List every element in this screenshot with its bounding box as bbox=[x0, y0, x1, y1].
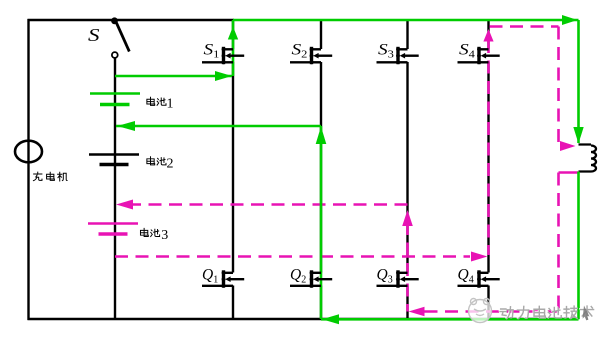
battery B1 plates (green) bbox=[90, 94, 140, 105]
switch S pole circle bbox=[112, 52, 118, 58]
wire green battery1 bottom branch bbox=[116, 125, 321, 128]
wire magenta battery3 bottom branch bbox=[115, 255, 470, 258]
svg-text:2: 2 bbox=[167, 156, 174, 171]
svg-text:Q1: Q1 bbox=[202, 267, 218, 286]
rail S2/Q2 column bbox=[320, 19, 322, 319]
arrow green left into battery node1 bbox=[117, 121, 135, 131]
watermark text bbox=[499, 305, 593, 318]
wire green right side drop bbox=[577, 20, 580, 143]
rail S1/Q1 column bbox=[232, 19, 234, 319]
wire battery stack bbox=[114, 58, 116, 319]
wire green bottom bus bbox=[321, 318, 579, 321]
arrow green up rail1 bbox=[228, 27, 238, 40]
svg-text:Q2: Q2 bbox=[290, 267, 306, 286]
wire magenta battery3 top branch bbox=[128, 203, 408, 206]
wire green rail2 lower bbox=[320, 126, 323, 319]
svg-text:Q4: Q4 bbox=[458, 267, 474, 286]
label 充电机 (charger) bbox=[33, 172, 67, 181]
battery B2 plates bbox=[89, 155, 139, 165]
svg-text:S4: S4 bbox=[459, 40, 475, 60]
wire magenta coil bottom link (solid) bbox=[559, 171, 580, 174]
arrow green down into inductor bbox=[573, 127, 583, 144]
MOSFET Q1 bbox=[202, 270, 244, 287]
MOSFET Q2 bbox=[290, 270, 332, 287]
arrow magenta right into inductor top bbox=[560, 141, 576, 151]
svg-text:S2: S2 bbox=[292, 40, 308, 60]
MOSFET S3 bbox=[377, 47, 419, 64]
watermark logo bbox=[469, 299, 492, 323]
arrow green left bottom bus bbox=[322, 314, 339, 324]
wire magenta bottom return bbox=[425, 310, 560, 313]
MOSFET Q3 bbox=[377, 270, 419, 287]
MOSFET S2 bbox=[290, 47, 332, 64]
green arrows bbox=[117, 15, 584, 324]
svg-text:S: S bbox=[88, 26, 100, 45]
MOSFET S1 bbox=[202, 47, 244, 64]
rail S4/Q4 column bbox=[487, 19, 489, 319]
wire green inductor to bottom bus bbox=[577, 172, 580, 320]
switch S blade bbox=[116, 23, 129, 52]
wire top bus (black part) bbox=[28, 19, 235, 21]
arrow green right top bus end bbox=[562, 15, 578, 25]
wire green top bus bbox=[233, 19, 579, 22]
battery B3 plates (magenta) bbox=[88, 224, 138, 235]
MOSFET S4 bbox=[458, 47, 500, 64]
arrow magenta up rail4 top bbox=[483, 29, 493, 42]
wire magenta top jog bbox=[490, 27, 559, 144]
watermark cursor bbox=[583, 306, 590, 321]
svg-text:S3: S3 bbox=[378, 40, 394, 60]
wire left border bbox=[27, 19, 29, 320]
arrow green right into rail1 bbox=[215, 71, 232, 81]
svg-text:S1: S1 bbox=[204, 40, 220, 60]
svg-text:Q3: Q3 bbox=[377, 267, 393, 286]
wire green rail1 top bbox=[232, 20, 235, 76]
arrow magenta up rail3 bbox=[402, 210, 413, 226]
label 电池2 bbox=[147, 157, 166, 165]
inductor L bbox=[579, 145, 597, 172]
wire magenta over rail3 bbox=[406, 222, 409, 312]
switch S dot bbox=[111, 17, 118, 24]
wire magenta right drop bbox=[557, 173, 560, 312]
label 电池3 bbox=[140, 228, 159, 236]
label 电池1 bbox=[147, 97, 166, 105]
rail S3/Q3 column bbox=[406, 19, 408, 319]
wire green battery1 top branch bbox=[115, 75, 232, 78]
arrow magenta left bottom return bbox=[409, 307, 425, 317]
arrow magenta left into battery3+ bbox=[116, 200, 133, 210]
arrow green up rail2 bbox=[316, 127, 327, 145]
magenta arrows bbox=[116, 29, 576, 316]
wire bottom bus bbox=[28, 318, 579, 320]
svg-text:3: 3 bbox=[161, 228, 168, 243]
wire magenta over rail4 bbox=[487, 40, 490, 255]
svg-text:1: 1 bbox=[167, 97, 174, 112]
arrow magenta right into rail4 bbox=[471, 252, 488, 262]
MOSFET Q4 bbox=[458, 270, 500, 287]
charger symbol circle bbox=[15, 141, 42, 163]
